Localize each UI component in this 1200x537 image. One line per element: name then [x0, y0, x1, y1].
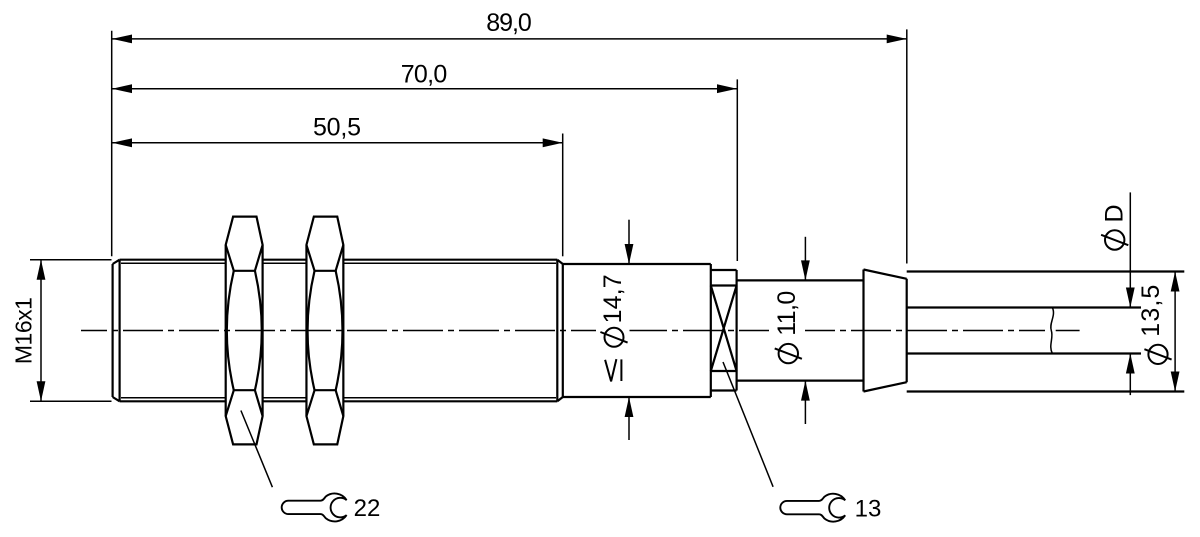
svg-text:D: D	[1101, 204, 1129, 222]
section Ø11,0	[737, 280, 864, 380]
svg-text:M16x1: M16x1	[11, 297, 37, 364]
body section Ø14,7	[563, 264, 711, 397]
cable break squiggle	[1051, 308, 1054, 354]
wrench icon 13	[780, 494, 845, 522]
dimension M16x1	[11, 260, 112, 402]
dimension Ø11,0	[773, 237, 810, 424]
leader to wrench 22	[241, 411, 273, 488]
svg-text:13,5: 13,5	[1137, 285, 1165, 337]
wrench icon 22	[282, 494, 347, 522]
dimension Ø13,5	[1137, 272, 1180, 392]
dimension 50,5	[112, 114, 563, 257]
hex section SW13 with cross	[711, 270, 737, 391]
hex nut 1 (SW22)	[226, 217, 263, 445]
cable	[907, 308, 1141, 354]
threaded barrel M16	[113, 260, 563, 402]
taper / cable gland	[864, 270, 907, 392]
svg-text:13: 13	[855, 496, 882, 523]
svg-text:22: 22	[354, 495, 381, 522]
hex nut 2 (SW22)	[306, 217, 343, 445]
dimension 70,0	[112, 61, 737, 262]
dimension Ø D	[1101, 192, 1135, 395]
svg-text:50,5: 50,5	[313, 114, 361, 142]
svg-text:11,0: 11,0	[773, 291, 801, 336]
diameter symbol of 11,0	[779, 344, 798, 363]
dimension Ø14,7	[599, 220, 633, 440]
diameter symbol of D	[1105, 230, 1124, 249]
connector body Ø13,5	[907, 272, 1185, 392]
svg-text:14,7: 14,7	[599, 274, 627, 323]
less-equal symbol	[605, 359, 616, 381]
diameter symbol of 14,7	[605, 328, 624, 347]
centerline	[81, 330, 1045, 332]
dimension 89,0	[112, 9, 907, 263]
diameter symbol of 13,5	[1148, 345, 1167, 364]
leader to wrench 13	[723, 362, 773, 487]
svg-text:70,0: 70,0	[401, 61, 448, 89]
svg-text:89,0: 89,0	[486, 9, 532, 37]
